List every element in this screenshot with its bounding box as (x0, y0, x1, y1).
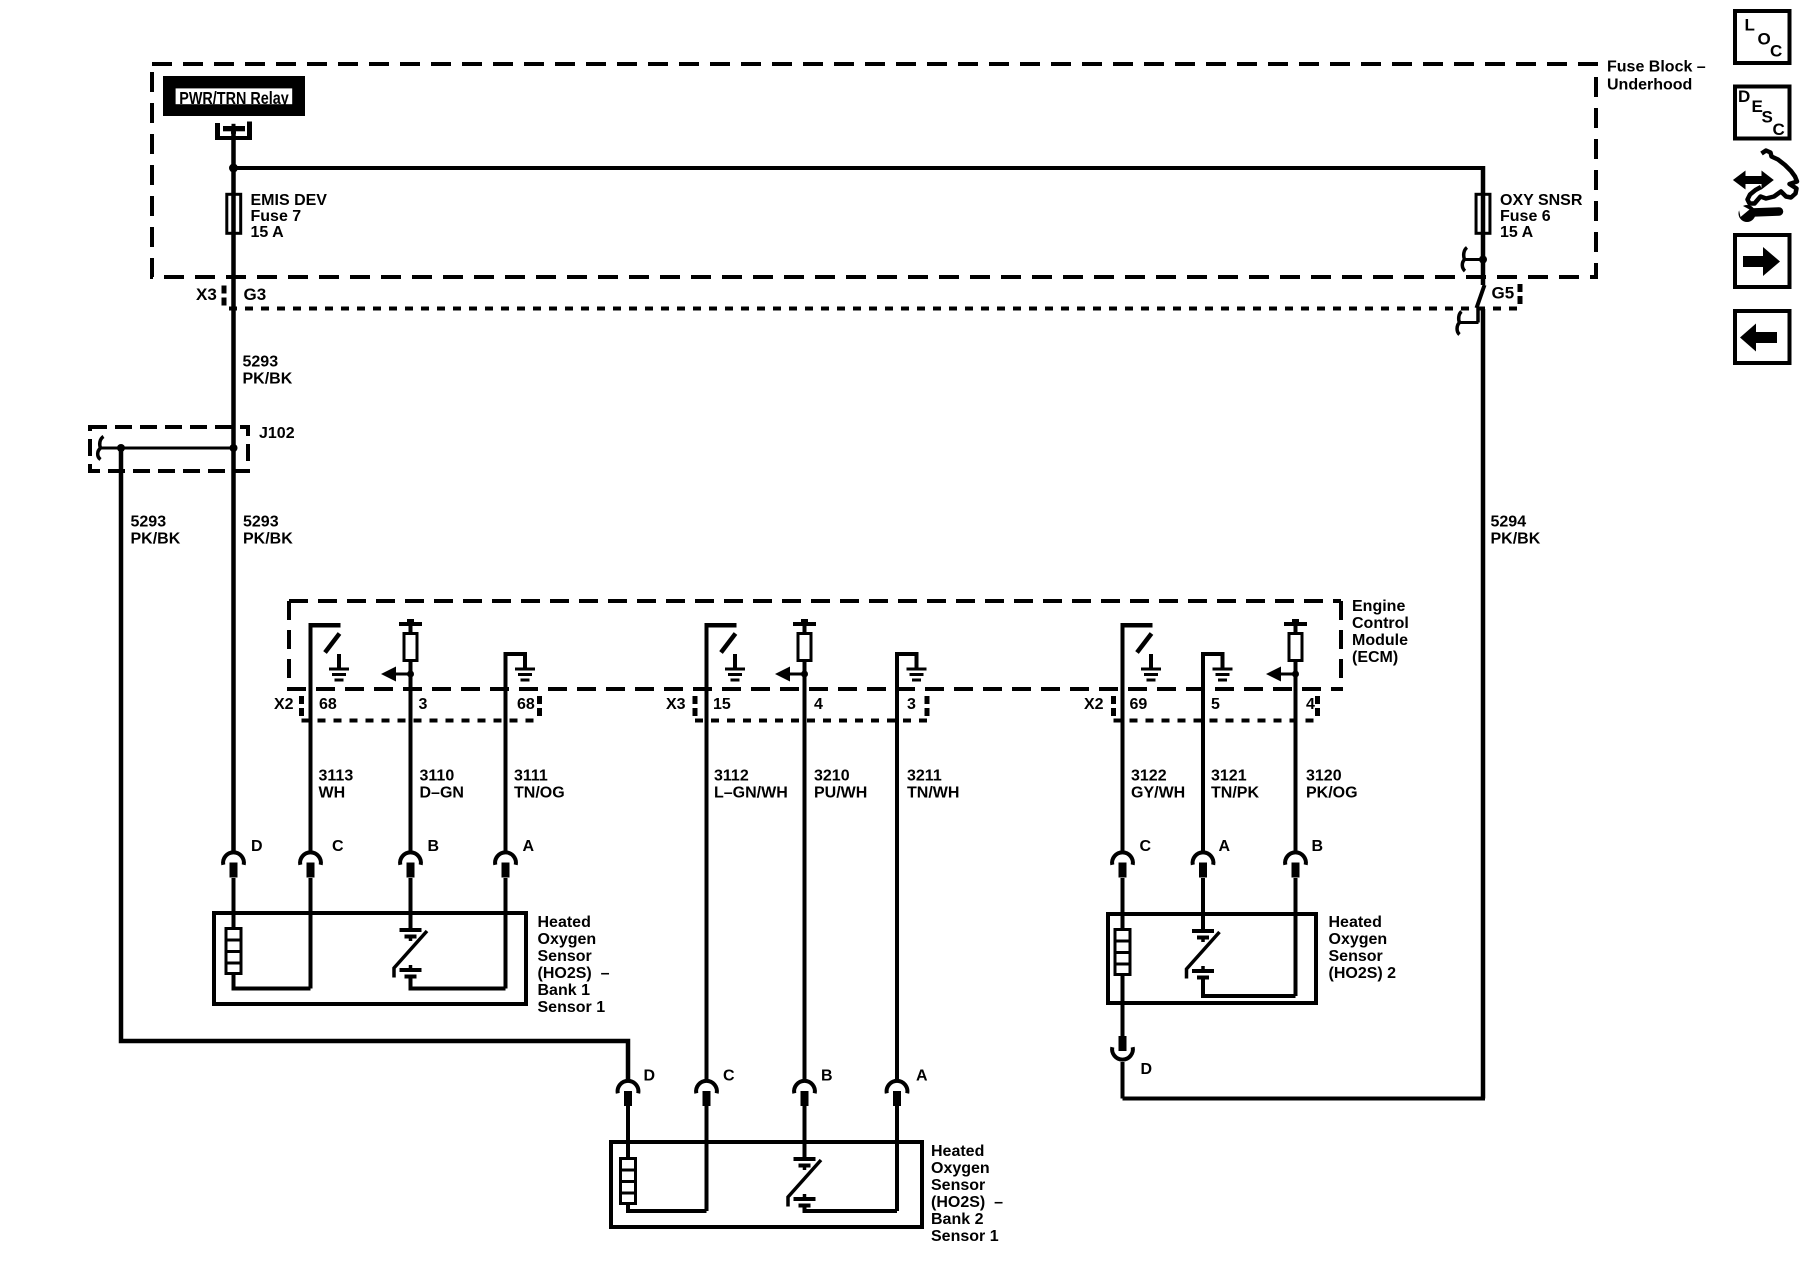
svg-text:GY/WH: GY/WH (1131, 785, 1185, 802)
svg-text:3122: 3122 (1131, 768, 1167, 785)
svg-text:3112: 3112 (714, 768, 749, 785)
svg-text:68: 68 (319, 696, 337, 713)
svg-text:69: 69 (1130, 696, 1148, 713)
svg-text:L–GN/WH: L–GN/WH (714, 785, 788, 802)
svg-text:Oxygen: Oxygen (538, 931, 597, 948)
svg-text:Module: Module (1352, 632, 1408, 649)
svg-text:Underhood: Underhood (1607, 77, 1692, 94)
svg-text:Sensor: Sensor (538, 948, 592, 965)
svg-text:WH: WH (319, 785, 346, 802)
svg-text:D: D (251, 838, 263, 855)
svg-text:15 A: 15 A (1500, 224, 1534, 241)
svg-text:B: B (1312, 838, 1324, 855)
svg-text:G5: G5 (1492, 284, 1515, 303)
svg-text:Sensor: Sensor (1329, 948, 1383, 965)
svg-text:Oxygen: Oxygen (1329, 931, 1388, 948)
svg-text:3120: 3120 (1306, 768, 1342, 785)
svg-text:Oxygen: Oxygen (931, 1160, 990, 1177)
svg-text:5: 5 (1211, 696, 1220, 713)
svg-text:Control: Control (1352, 615, 1409, 632)
svg-text:(HO2S) 2: (HO2S) 2 (1329, 965, 1397, 982)
svg-text:4: 4 (1306, 696, 1315, 713)
svg-text:X3: X3 (666, 696, 686, 713)
svg-text:Bank 2: Bank 2 (931, 1211, 984, 1228)
svg-text:3110: 3110 (420, 768, 455, 785)
svg-text:3: 3 (907, 696, 916, 713)
svg-text:D: D (1141, 1061, 1153, 1078)
svg-text:C: C (1140, 838, 1152, 855)
svg-text:(HO2S) –: (HO2S) – (538, 965, 610, 982)
svg-text:(ECM): (ECM) (1352, 649, 1398, 666)
svg-text:A: A (916, 1068, 928, 1085)
svg-text:X2: X2 (1084, 696, 1104, 713)
svg-text:B: B (821, 1068, 833, 1085)
svg-text:3211: 3211 (907, 768, 942, 785)
svg-text:15: 15 (713, 696, 731, 713)
svg-text:PK/BK: PK/BK (131, 531, 181, 548)
svg-text:L: L (1745, 16, 1755, 35)
svg-text:PK/BK: PK/BK (243, 371, 293, 388)
svg-text:Fuse 7: Fuse 7 (251, 208, 302, 225)
svg-text:EMIS DEV: EMIS DEV (251, 192, 328, 209)
svg-text:PK/OG: PK/OG (1306, 785, 1358, 802)
svg-text:15 A: 15 A (251, 224, 285, 241)
svg-text:Fuse 6: Fuse 6 (1500, 208, 1551, 225)
svg-text:5293: 5293 (243, 514, 279, 531)
svg-text:S: S (1762, 108, 1773, 127)
svg-text:PWR/TRN Relay: PWR/TRN Relay (179, 89, 289, 109)
svg-text:5293: 5293 (131, 514, 167, 531)
svg-text:3113: 3113 (319, 768, 354, 785)
svg-text:3111: 3111 (514, 768, 548, 785)
svg-text:3121: 3121 (1211, 768, 1247, 785)
svg-text:Bank 1: Bank 1 (538, 982, 591, 999)
svg-text:3210: 3210 (814, 768, 850, 785)
svg-text:PK/BK: PK/BK (1491, 531, 1541, 548)
svg-text:68: 68 (517, 696, 535, 713)
svg-text:Sensor: Sensor (931, 1177, 985, 1194)
svg-text:5294: 5294 (1491, 514, 1527, 531)
svg-text:Heated: Heated (538, 914, 591, 931)
svg-text:C: C (332, 838, 344, 855)
svg-text:J102: J102 (259, 425, 295, 442)
svg-text:3: 3 (419, 696, 428, 713)
svg-text:Engine: Engine (1352, 598, 1405, 615)
svg-text:B: B (428, 838, 440, 855)
svg-text:Sensor 1: Sensor 1 (538, 999, 606, 1016)
svg-text:G3: G3 (244, 285, 267, 304)
svg-text:X2: X2 (274, 696, 294, 713)
svg-text:TN/PK: TN/PK (1211, 785, 1259, 802)
svg-text:PK/BK: PK/BK (243, 531, 293, 548)
svg-text:TN/OG: TN/OG (514, 785, 565, 802)
svg-text:PU/WH: PU/WH (814, 785, 867, 802)
svg-text:Sensor 1: Sensor 1 (931, 1228, 999, 1245)
svg-text:O: O (1758, 30, 1771, 49)
svg-text:C: C (1773, 120, 1785, 139)
svg-text:Fuse Block –: Fuse Block – (1607, 59, 1706, 76)
svg-text:X3: X3 (196, 285, 217, 304)
svg-text:D–GN: D–GN (420, 785, 464, 802)
svg-text:A: A (523, 838, 535, 855)
svg-text:C: C (723, 1068, 735, 1085)
svg-text:4: 4 (814, 696, 823, 713)
svg-text:Heated: Heated (1329, 914, 1382, 931)
svg-text:OXY SNSR: OXY SNSR (1500, 192, 1583, 209)
svg-text:5293: 5293 (243, 354, 279, 371)
svg-text:A: A (1219, 838, 1231, 855)
svg-text:TN/WH: TN/WH (907, 785, 959, 802)
svg-text:D: D (1738, 87, 1750, 106)
svg-text:D: D (644, 1068, 656, 1085)
svg-text:Heated: Heated (931, 1143, 984, 1160)
svg-text:(HO2S) –: (HO2S) – (931, 1194, 1003, 1211)
svg-text:C: C (1770, 42, 1782, 61)
